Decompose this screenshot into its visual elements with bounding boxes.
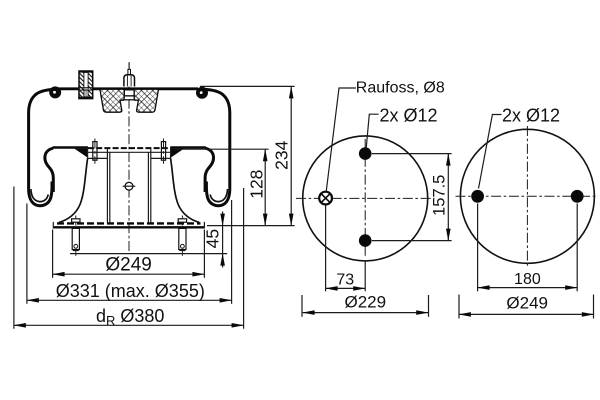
svg-text:2x Ø12: 2x Ø12 [380, 105, 438, 125]
dimension 45 (arrows outside) [222, 212, 224, 226]
extension line flange level [174, 148, 269, 150]
svg-text:Ø331 (max. Ø355): Ø331 (max. Ø355) [56, 281, 205, 301]
left bead (rolled plate edge) [49, 86, 61, 98]
dimension Ø249 (bottom of left view) [52, 230, 54, 278]
dimension Ø331 (max. Ø355) [26, 204, 28, 304]
dimension 157.5 [372, 153, 452, 155]
right bead (rolled plate edge) [196, 87, 208, 99]
lobe inner surface (right) [210, 189, 227, 202]
top plate (thick) [56, 87, 198, 90]
leader Raufoss label [326, 88, 356, 192]
bottom plate circle [460, 129, 594, 263]
svg-text:128: 128 [246, 170, 266, 199]
clamp wedge (filled) [74, 149, 87, 158]
top plate top surface line / extension line for 234 [200, 85, 295, 87]
svg-text:Ø249: Ø249 [506, 294, 548, 313]
Raufoss fitting symbol (circle with X) [319, 192, 332, 205]
rubber bumper (cross-hatched), left block [100, 89, 124, 112]
centre stud with cap and washer [123, 62, 136, 100]
piston flange bolt left [93, 139, 97, 164]
svg-text:73: 73 [336, 272, 354, 289]
svg-text:2x Ø12: 2x Ø12 [502, 105, 560, 125]
stud right (filled) [571, 190, 584, 203]
leader 2x Ø12 (right) [479, 115, 502, 189]
dimension 234 [290, 86, 292, 225]
dimension Ø229 [301, 295, 303, 317]
svg-text:234: 234 [271, 140, 291, 169]
svg-text:Ø229: Ø229 [345, 293, 387, 312]
rubber bumper (cross-hatched), right block [134, 89, 158, 112]
piston skirt right [171, 158, 200, 222]
extension line bolt end level [70, 253, 227, 255]
svg-text:180: 180 [514, 271, 541, 288]
piston flange bolt right [161, 139, 165, 164]
rubber lip on flange [53, 146, 89, 149]
bottom plate [53, 222, 204, 229]
svg-text:157.5: 157.5 [430, 175, 448, 216]
rubber lip on flange (right) [170, 146, 206, 149]
Raufoss air fitting (ribbed stud, left of centre) [78, 71, 93, 99]
stud bottom (filled) [359, 234, 372, 247]
svg-text:Raufoss, Ø8: Raufoss, Ø8 [356, 80, 445, 97]
outer wall with bottom lobe [29, 89, 56, 205]
bellows right half (mirror) [170, 89, 229, 205]
horizontal centerline [296, 197, 435, 199]
S-fold to piston flange [45, 148, 53, 192]
centerline (main vertical axis, left view) [128, 63, 130, 253]
svg-text:45: 45 [202, 229, 222, 248]
horizontal centerline [456, 195, 599, 197]
stud left (filled) [471, 190, 484, 203]
piston cylinder walls [107, 148, 150, 222]
dimension Ø249 (right view) [458, 295, 460, 319]
dimension 128 [264, 149, 266, 225]
svg-text:Ø249: Ø249 [105, 254, 151, 275]
bottom mounting bolt left [72, 216, 80, 256]
top plate circle [303, 136, 428, 261]
vertical centerline [526, 126, 528, 267]
lobe inner surface [31, 189, 48, 202]
dimension dR Ø380 [13, 187, 15, 329]
extension line bottom (lobe/plate level) [207, 225, 295, 227]
stud top (filled) [359, 147, 372, 160]
dimension 180 [477, 204, 479, 292]
vertical centerline [364, 139, 366, 258]
clamp wedge (right, filled) [171, 149, 184, 158]
drain hole symbol [123, 182, 136, 190]
S-fold to piston flange (right) [205, 148, 213, 192]
bottom mounting bolt right [178, 216, 186, 256]
leader 2x Ø12 (middle) [366, 114, 378, 148]
piston skirt left [59, 158, 88, 222]
dimension 73 [325, 206, 327, 292]
bellows left half [29, 89, 88, 205]
piston flange [88, 147, 171, 158]
outer wall with bottom lobe (right) [203, 89, 230, 205]
